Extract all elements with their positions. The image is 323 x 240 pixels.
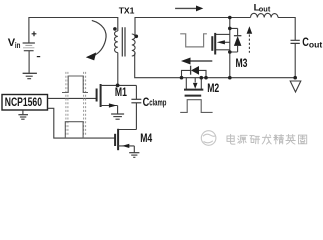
svg-text:clamp: clamp <box>149 97 166 108</box>
svg-text:M3: M3 <box>236 58 248 71</box>
svg-text:out: out <box>259 5 271 14</box>
svg-text:NCP1560: NCP1560 <box>5 97 42 110</box>
svg-text:M4: M4 <box>140 133 152 146</box>
svg-text:M2: M2 <box>207 83 219 96</box>
svg-text:in: in <box>15 43 21 51</box>
svg-text:out: out <box>309 40 322 50</box>
svg-text:M1: M1 <box>115 87 127 100</box>
svg-text:TX1: TX1 <box>119 6 135 16</box>
